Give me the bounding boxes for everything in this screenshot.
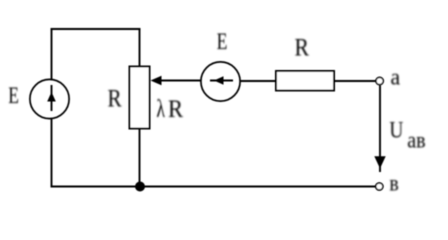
- svg-text:a: a: [391, 64, 401, 90]
- svg-text:R: R: [168, 96, 183, 123]
- wire: resistor R2 to terminal a: [334, 80, 376, 82]
- svg-text:ав: ав: [407, 127, 425, 153]
- svg-text:U: U: [389, 117, 403, 143]
- resistor R1 (vertical, λR potentiometer): [130, 67, 150, 129]
- wire: left side upper, top rail to source E1 top: [51, 28, 53, 80]
- arrow: voltage arrow U_ab from a down to b: [374, 86, 385, 173]
- wire: resistor R1 bottom to junction node: [139, 129, 141, 187]
- svg-text:λ: λ: [156, 95, 165, 123]
- wire: left side lower, source E1 bottom to bottom rail: [51, 119, 53, 188]
- wire: bottom rail: [51, 186, 376, 188]
- svg-text:E: E: [217, 30, 228, 55]
- arrow inside source E1 (pointing up): [47, 85, 56, 111]
- wire: tap arrow from source E2 to resistor R1 (arrowhead at resistor): [151, 76, 202, 86]
- wire: source E2 to resistor R2: [240, 80, 276, 82]
- svg-text:R: R: [108, 85, 123, 113]
- svg-text:в: в: [389, 170, 398, 196]
- node: junction dot on bottom rail: [135, 182, 145, 192]
- source E1 (left EMF source) circle: [30, 79, 69, 118]
- wire: top of left loop: [51, 28, 141, 30]
- source E2 (middle EMF source) circle: [201, 62, 240, 101]
- resistor R2 (horizontal): [276, 71, 334, 91]
- arrow inside source E2 (pointing left): [210, 76, 233, 85]
- wire: right side of left loop, top rail down to resistor R1: [139, 28, 141, 67]
- svg-text:E: E: [8, 84, 19, 109]
- terminal в (open circle): [376, 183, 383, 190]
- terminal a (open circle): [376, 77, 383, 84]
- svg-text:R: R: [295, 34, 310, 62]
